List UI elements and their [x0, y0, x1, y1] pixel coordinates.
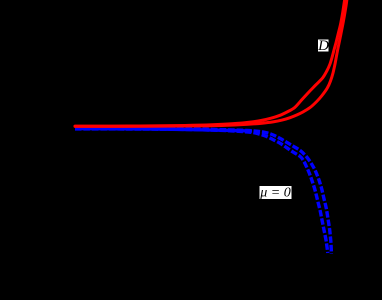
svg-text:D: D [317, 38, 329, 54]
curve R2 (red, second branch) [75, 0, 347, 126]
wire blue flat asymptote (solid underlay) [75, 129, 252, 132]
curve B1 (blue, right/upper branch, dashed) [75, 129, 331, 255]
curve R1 (red, steeper branch) [75, 0, 345, 126]
svg-text:μ = 0: μ = 0 [259, 186, 290, 201]
label D box [318, 40, 329, 52]
curve B2 (blue, left/lower branch, dashed) [75, 129, 328, 253]
label mu = 0 box [260, 186, 292, 199]
